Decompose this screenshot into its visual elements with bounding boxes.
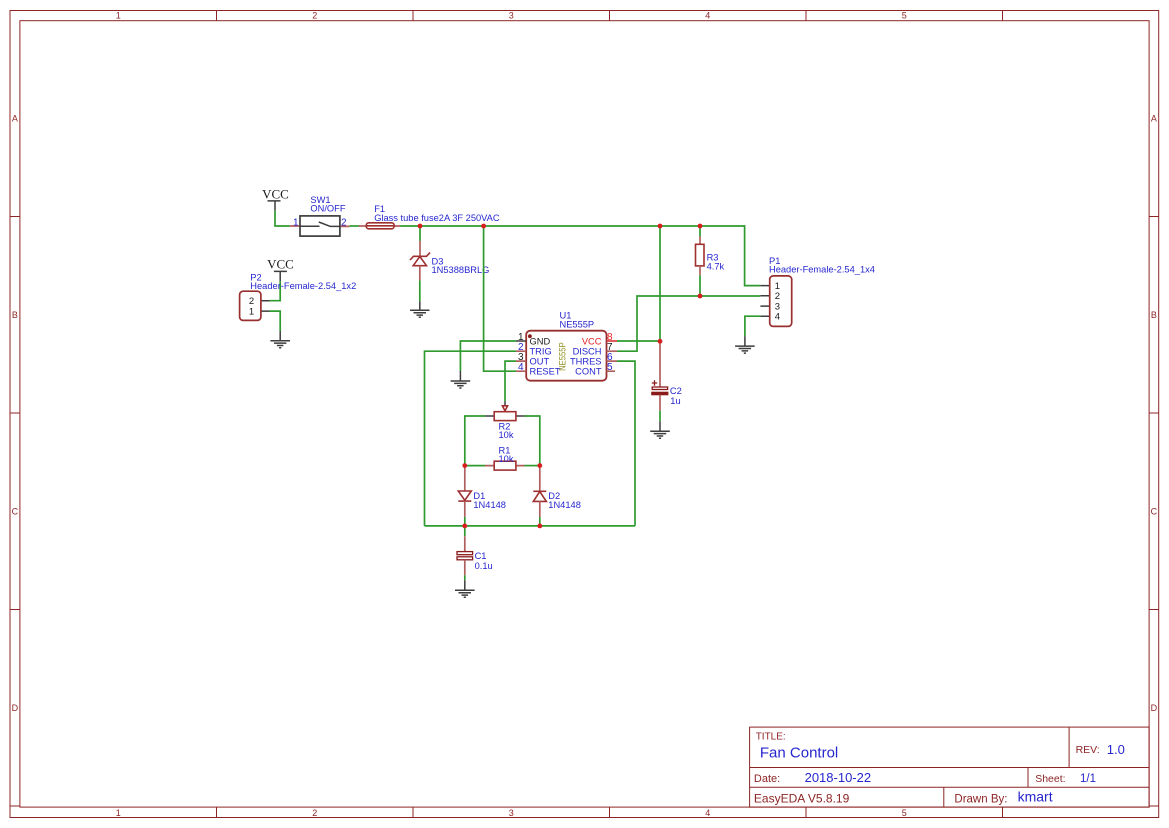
frame row labels left: [12, 113, 19, 713]
node junction bottom right: [537, 524, 542, 529]
wire D3 top: [419, 226, 421, 241]
op-amp U1 left pin stubs: [516, 340, 526, 342]
wire P2 pin1 to ground: [270, 311, 281, 331]
wire R3 to pin2 net: [699, 275, 701, 296]
svg-text:Sheet:: Sheet:: [1035, 773, 1065, 785]
wire THRES to bottom loop: [617, 361, 635, 526]
net flag VCC (at P2): [267, 257, 294, 282]
svg-text:5: 5: [902, 11, 907, 21]
svg-text:ON/OFF: ON/OFF: [310, 204, 345, 214]
frame row ticks left: [10, 217, 20, 807]
svg-text:2: 2: [312, 808, 317, 818]
svg-text:VCC: VCC: [582, 336, 602, 346]
svg-text:EasyEDA V5.8.19: EasyEDA V5.8.19: [754, 792, 850, 806]
svg-text:TRIG: TRIG: [530, 347, 552, 357]
diode D2 pin bottom: [539, 501, 541, 517]
svg-text:2: 2: [249, 296, 254, 307]
wire bottom loop: [425, 525, 636, 527]
svg-text:RESET: RESET: [530, 367, 561, 377]
diode D2 pin top: [539, 466, 541, 492]
resistor R3 pin bottom: [699, 266, 701, 275]
capacitor C1: [457, 552, 473, 560]
ground (U1 pin1): [451, 371, 471, 388]
wire main VCC rail to P1 pin1: [400, 226, 760, 286]
frame column ticks top: [217, 11, 1003, 21]
svg-text:1: 1: [116, 11, 121, 21]
node junction on rail at C2 column: [658, 224, 663, 229]
fuse F1 pin stubs: [359, 225, 400, 227]
capacitor C2 plus sign: [652, 380, 657, 385]
potentiometer R2 wiper pin: [504, 401, 506, 406]
wire VCC to P2 pin2: [270, 281, 281, 301]
wire DISCH to P1 pin2: [617, 296, 760, 351]
title block column lines: [944, 727, 1069, 807]
svg-text:2: 2: [341, 217, 347, 228]
op-amp U1 pin1 dot: [528, 334, 532, 338]
svg-text:NE555P: NE555P: [558, 342, 568, 371]
ground (C1): [455, 580, 475, 597]
resistor R1: [494, 461, 516, 470]
header P2: [240, 291, 261, 320]
svg-text:1N4148: 1N4148: [473, 500, 506, 510]
ground (D3): [410, 301, 430, 317]
svg-text:Date:: Date:: [754, 773, 780, 785]
svg-text:3: 3: [509, 11, 514, 21]
diode D1 pin top: [464, 466, 466, 491]
resistor R1 pin stubs: [485, 465, 525, 467]
node junction on rail at R3: [698, 224, 703, 229]
svg-text:CONT: CONT: [575, 367, 602, 377]
svg-text:4: 4: [518, 362, 524, 373]
svg-text:TITLE:: TITLE:: [756, 732, 786, 743]
wire C2 to ground: [659, 411, 661, 421]
svg-text:4: 4: [705, 11, 710, 21]
svg-text:3: 3: [509, 808, 514, 818]
svg-text:1N5388BRLG: 1N5388BRLG: [432, 265, 490, 275]
switch SW1: [300, 216, 340, 236]
node junction R1 left: [462, 463, 467, 468]
svg-text:1: 1: [293, 217, 299, 228]
op-amp U1 NE555P body: [526, 331, 606, 381]
svg-text:D: D: [1151, 703, 1158, 713]
wire C2 column riser: [659, 226, 661, 341]
svg-text:Glass tube fuse2A 3F 250VAC: Glass tube fuse2A 3F 250VAC: [374, 213, 500, 223]
svg-text:5: 5: [607, 362, 613, 373]
capacitor C1 pin bottom: [464, 560, 466, 576]
wire R2 right leg: [525, 416, 540, 466]
svg-text:A: A: [12, 113, 18, 123]
wire R3 top: [699, 226, 701, 237]
capacitor C2 pin bottom: [659, 395, 661, 411]
diode D3 pin top: [419, 241, 421, 256]
svg-text:THRES: THRES: [570, 356, 602, 366]
title block outline: [750, 727, 1150, 807]
title block row lines: [750, 768, 1150, 788]
header P2 pin stubs: [261, 301, 270, 311]
wire R1 left: [465, 465, 485, 467]
svg-text:Header-Female-2.54_1x2: Header-Female-2.54_1x2: [250, 281, 356, 291]
svg-text:A: A: [1151, 113, 1157, 123]
svg-text:DISCH: DISCH: [573, 347, 602, 357]
diode D1: [458, 491, 471, 501]
svg-text:4: 4: [705, 808, 710, 818]
potentiometer R2 pin stubs: [485, 415, 525, 417]
svg-text:5: 5: [902, 808, 907, 818]
header P1 pin stubs: [760, 286, 769, 317]
wire SW1 to F1: [349, 225, 359, 227]
svg-text:C1: C1: [475, 551, 487, 561]
svg-text:C2: C2: [670, 386, 682, 396]
diode D3 pin bottom: [419, 266, 421, 281]
svg-text:Fan Control: Fan Control: [760, 745, 838, 762]
svg-text:0.1u: 0.1u: [475, 561, 493, 571]
wire R1 right: [525, 465, 540, 467]
diode D1 pin bottom: [464, 501, 466, 517]
svg-text:C: C: [1151, 506, 1158, 516]
svg-text:kmart: kmart: [1018, 789, 1053, 805]
wire C1 to ground: [464, 575, 466, 580]
resistor R3: [696, 244, 705, 266]
net flag VCC (top, at SW1): [262, 187, 289, 211]
frame row labels right: [1151, 113, 1158, 713]
frame column labels top: [116, 11, 907, 21]
resistor R3 pin top: [699, 237, 701, 245]
wire RESET riser: [484, 226, 516, 371]
node junction bottom left: [462, 524, 467, 529]
diode D2: [533, 491, 546, 501]
switch SW1 pin stubs: [290, 225, 350, 227]
svg-text:1u: 1u: [670, 396, 680, 406]
wire D2 to bottom loop: [539, 517, 541, 526]
wire OUT to R2 wiper: [505, 361, 516, 401]
svg-text:4.7k: 4.7k: [707, 262, 725, 272]
svg-text:1: 1: [249, 306, 254, 317]
node junction R1 right: [537, 463, 542, 468]
svg-text:2018-10-22: 2018-10-22: [805, 770, 872, 785]
svg-text:10k: 10k: [499, 430, 514, 440]
svg-text:NE555P: NE555P: [560, 319, 595, 329]
svg-text:1: 1: [116, 808, 121, 818]
svg-text:VCC: VCC: [262, 187, 289, 202]
svg-text:REV:: REV:: [1076, 744, 1100, 756]
ground (C2): [650, 421, 670, 438]
capacitor C2: [652, 387, 668, 395]
diode D3 zener: [410, 253, 430, 266]
frame column labels bottom: [116, 808, 907, 818]
capacitor C1 pin top: [464, 536, 466, 551]
node junction on rail at RESET riser: [481, 224, 486, 229]
svg-text:VCC: VCC: [267, 257, 294, 272]
header P1: [770, 276, 792, 327]
wire VCC pin8 to C2 column: [617, 340, 660, 342]
wire D3 to ground: [419, 280, 421, 301]
svg-text:OUT: OUT: [530, 356, 550, 366]
svg-text:4: 4: [775, 312, 780, 323]
potentiometer R2 wiper arrow: [502, 406, 507, 412]
svg-text:1N4148: 1N4148: [548, 500, 581, 510]
svg-text:B: B: [12, 310, 18, 320]
node junction on rail above D3: [418, 224, 423, 229]
fuse F1: [366, 223, 394, 229]
svg-text:Header-Female-2.54_1x4: Header-Female-2.54_1x4: [769, 265, 875, 275]
frame row ticks right: [1149, 217, 1159, 807]
svg-text:GND: GND: [530, 336, 551, 346]
wire R2 left leg: [465, 416, 485, 466]
wire GND pin1 to ground: [460, 341, 516, 371]
wire VCC to SW1 pin1: [275, 211, 290, 226]
op-amp U1 right pin stubs: [607, 340, 618, 342]
wire P1 pin4 to ground: [745, 316, 761, 336]
svg-text:C: C: [12, 506, 19, 516]
svg-text:D: D: [12, 703, 19, 713]
wire TRIG to bottom loop: [425, 351, 517, 526]
capacitor C2 pin top: [659, 341, 661, 387]
node junction at R3 bottom: [698, 294, 703, 299]
node junction at VCC pin8: [658, 339, 663, 344]
ground (P2): [270, 331, 290, 348]
svg-text:2: 2: [312, 11, 317, 21]
svg-text:1.0: 1.0: [1107, 742, 1125, 757]
ground (P1): [735, 336, 755, 353]
svg-text:Drawn By:: Drawn By:: [954, 794, 1007, 806]
svg-text:B: B: [1151, 310, 1157, 320]
svg-text:1/1: 1/1: [1080, 773, 1096, 785]
wire D1 to bottom loop: [464, 517, 466, 526]
potentiometer R2: [494, 412, 516, 421]
wire C1 top: [464, 526, 466, 536]
svg-text:10k: 10k: [499, 454, 514, 464]
frame column ticks bottom: [217, 807, 1003, 817]
